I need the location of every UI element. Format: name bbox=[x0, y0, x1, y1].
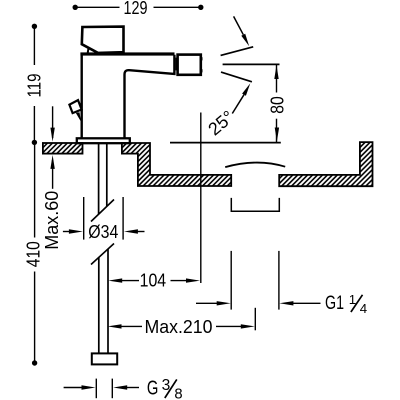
dim G1-1/4 right arrow bbox=[279, 301, 293, 305]
dim Max.210 left arrowhead bbox=[108, 324, 122, 328]
top leader line bbox=[234, 16, 244, 34]
dim 119 end dots bbox=[32, 24, 37, 29]
dim O34 right arrow bbox=[124, 229, 138, 233]
dim 80 top arrowhead bbox=[274, 65, 278, 79]
dim O34 left arrow bbox=[63, 231, 70, 233]
svg-text:Ø34: Ø34 bbox=[88, 221, 118, 242]
spout mid position line bbox=[223, 63, 280, 65]
dim Max.60 upper leader bbox=[52, 106, 54, 138]
dim 104 left arrowhead bbox=[108, 278, 122, 282]
dim G3/8 right arrow bbox=[113, 385, 127, 389]
spout outlet centerline bbox=[200, 113, 202, 284]
countertop right section bbox=[279, 142, 372, 186]
aerator tip box bbox=[178, 55, 201, 75]
pipe break mark upper bbox=[91, 200, 114, 222]
dim 104 line bbox=[121, 280, 139, 282]
dim Max.210 right extension line bbox=[254, 308, 256, 331]
dim Max.60 lower arrowhead bbox=[50, 155, 54, 169]
spout down-tilt line bbox=[221, 72, 252, 82]
hose end connector bbox=[92, 353, 117, 364]
dim Max.60 lower leader bbox=[52, 160, 54, 189]
drain pull knob bbox=[69, 100, 81, 113]
dim G3/8 ticks bbox=[95, 379, 97, 399]
dim Max.210 line bbox=[121, 325, 143, 327]
faucet lever tail tick bbox=[87, 48, 90, 53]
supply pipe upper right bbox=[106, 143, 108, 206]
svg-text:8: 8 bbox=[174, 387, 182, 400]
svg-text:G: G bbox=[147, 376, 159, 399]
25 deg leader arrowhead bbox=[242, 83, 250, 96]
bowl arc bbox=[225, 163, 285, 168]
faucet body left edge bbox=[80, 53, 82, 139]
faucet base plate bbox=[77, 138, 130, 143]
supply pipe lower left bbox=[98, 257, 100, 353]
aerator nub top bbox=[201, 57, 203, 60]
dim 104 right arrowhead bbox=[186, 278, 200, 282]
drain hole U bbox=[231, 198, 279, 211]
dim G3/8 left arrow bbox=[64, 387, 82, 389]
dim 129 line bbox=[75, 6, 119, 8]
dim 410 line bbox=[34, 142, 36, 237]
faucet body right edge and spout underside bbox=[125, 55, 175, 139]
svg-text:410: 410 bbox=[24, 241, 44, 267]
dim 129 end dots bbox=[73, 5, 78, 10]
svg-text:4: 4 bbox=[360, 301, 367, 316]
deck top reference line bbox=[170, 142, 281, 144]
aerator connector line bbox=[175, 58, 177, 71]
faucet top cap bar bbox=[80, 52, 174, 55]
spout up-tilt line bbox=[221, 47, 254, 56]
svg-text:80: 80 bbox=[268, 96, 288, 114]
dim 80 line bbox=[276, 64, 278, 92]
top leader arrowhead bbox=[241, 34, 249, 47]
drain pull tail bbox=[76, 112, 81, 122]
supply pipe lower right bbox=[107, 249, 109, 354]
dim 119 line bbox=[33, 26, 35, 65]
aerator nub bottom bbox=[201, 69, 203, 72]
svg-text:104: 104 bbox=[140, 271, 167, 291]
25 deg leader line bbox=[232, 95, 244, 114]
svg-text:Max.60: Max.60 bbox=[42, 191, 62, 250]
countertop left section bbox=[43, 143, 83, 154]
dim G1-1/4 extension lines bbox=[230, 251, 232, 310]
dim O34 extension lines bbox=[83, 197, 85, 240]
dim Max.60 upper arrowhead bbox=[50, 128, 54, 142]
dim G1-1/4 left arrow bbox=[196, 302, 218, 304]
countertop middle stepped section bbox=[122, 143, 231, 186]
dim Max.210 right arrowhead bbox=[241, 324, 255, 328]
svg-text:G1: G1 bbox=[325, 292, 344, 314]
svg-text:119: 119 bbox=[24, 74, 44, 98]
svg-text:Max.210: Max.210 bbox=[145, 317, 213, 337]
faucet handle bbox=[82, 27, 124, 53]
svg-text:129: 129 bbox=[124, 0, 148, 18]
supply pipe upper left bbox=[98, 143, 100, 214]
pipe break mark lower bbox=[91, 244, 114, 265]
dim 80 bottom arrowhead bbox=[275, 128, 279, 142]
dim 410 end dot bbox=[32, 360, 37, 365]
